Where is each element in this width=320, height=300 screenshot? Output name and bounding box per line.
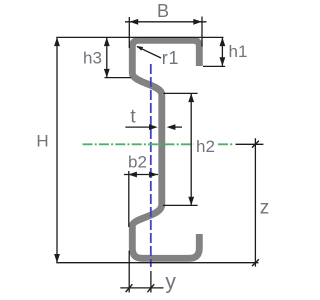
neutral axis z-z right segment (green dash-dot): [218, 143, 234, 145]
dimension h2 bottom extension line: [163, 204, 198, 206]
dimension y left oblique tick: [126, 284, 133, 292]
svg-text:h3: h3: [83, 49, 102, 68]
dimension B left arrowhead: [130, 19, 139, 25]
dimension h1 line: [221, 37, 223, 66]
centroid vertical axis y-y (blue dashed): [150, 64, 152, 267]
r1 leader line: [137, 47, 161, 58]
dimension h2 line: [190, 93, 192, 205]
t thickness right arrowhead (points left at web): [167, 124, 176, 130]
dimension y left extension line: [128, 251, 130, 293]
t thickness left arrowhead (points right at web): [149, 124, 158, 130]
svg-text:h1: h1: [229, 42, 248, 61]
dimension h3 line: [106, 37, 108, 77]
dimension h1 bottom arrowhead: [220, 57, 226, 66]
dimension h1 bottom extension line: [203, 65, 225, 67]
dimension b2 right arrowhead: [149, 172, 158, 178]
dimension b2 line: [124, 174, 158, 176]
t thickness right leader line: [172, 126, 182, 128]
neutral axis z-z left segment (green dash-dot): [83, 143, 194, 145]
z dimension top extension line: [236, 143, 264, 145]
dimension h2 top extension line: [164, 92, 198, 94]
svg-text:t: t: [130, 106, 136, 127]
dimension B right extension line: [201, 17, 203, 47]
svg-text:H: H: [36, 132, 48, 151]
dimension b2 left extension line: [128, 171, 130, 227]
svg-text:h2: h2: [196, 137, 215, 156]
dimension y line: [120, 287, 163, 289]
svg-text:B: B: [157, 1, 169, 21]
svg-text:y: y: [165, 271, 176, 294]
dimension y right oblique tick: [147, 284, 154, 292]
dimension B line: [125, 21, 207, 23]
bottom reference extension line: [56, 262, 258, 264]
sigma profile cross-section outline (gray steel wall): [132, 40, 199, 258]
dimension H bottom arrowhead: [54, 254, 60, 263]
dimension z top oblique tick: [252, 141, 259, 148]
dimension h3 top arrowhead: [104, 37, 110, 46]
dimension B right arrowhead: [193, 19, 202, 25]
dimension H line: [56, 37, 58, 262]
top reference extension line: [56, 36, 223, 38]
dimension h2 bottom arrowhead: [188, 197, 194, 206]
dimension h3 bottom extension line: [105, 77, 132, 79]
dimension H top arrowhead: [54, 37, 60, 46]
dimension z line: [254, 138, 256, 266]
t thickness left leader line: [125, 126, 152, 128]
dimension y right extension line: [150, 271, 152, 293]
dimension h3 bottom arrowhead: [104, 69, 110, 78]
svg-text:b2: b2: [128, 153, 147, 172]
dimension h2 top arrowhead: [188, 93, 194, 102]
dimension z bottom oblique tick: [252, 259, 259, 266]
r1 leader arrowhead: [136, 46, 143, 51]
svg-text:z: z: [260, 198, 270, 219]
dimension b2 left arrowhead: [128, 172, 137, 178]
dimension h1 top arrowhead: [220, 37, 226, 46]
dimension B left extension line: [128, 17, 130, 48]
svg-text:r1: r1: [162, 48, 180, 68]
